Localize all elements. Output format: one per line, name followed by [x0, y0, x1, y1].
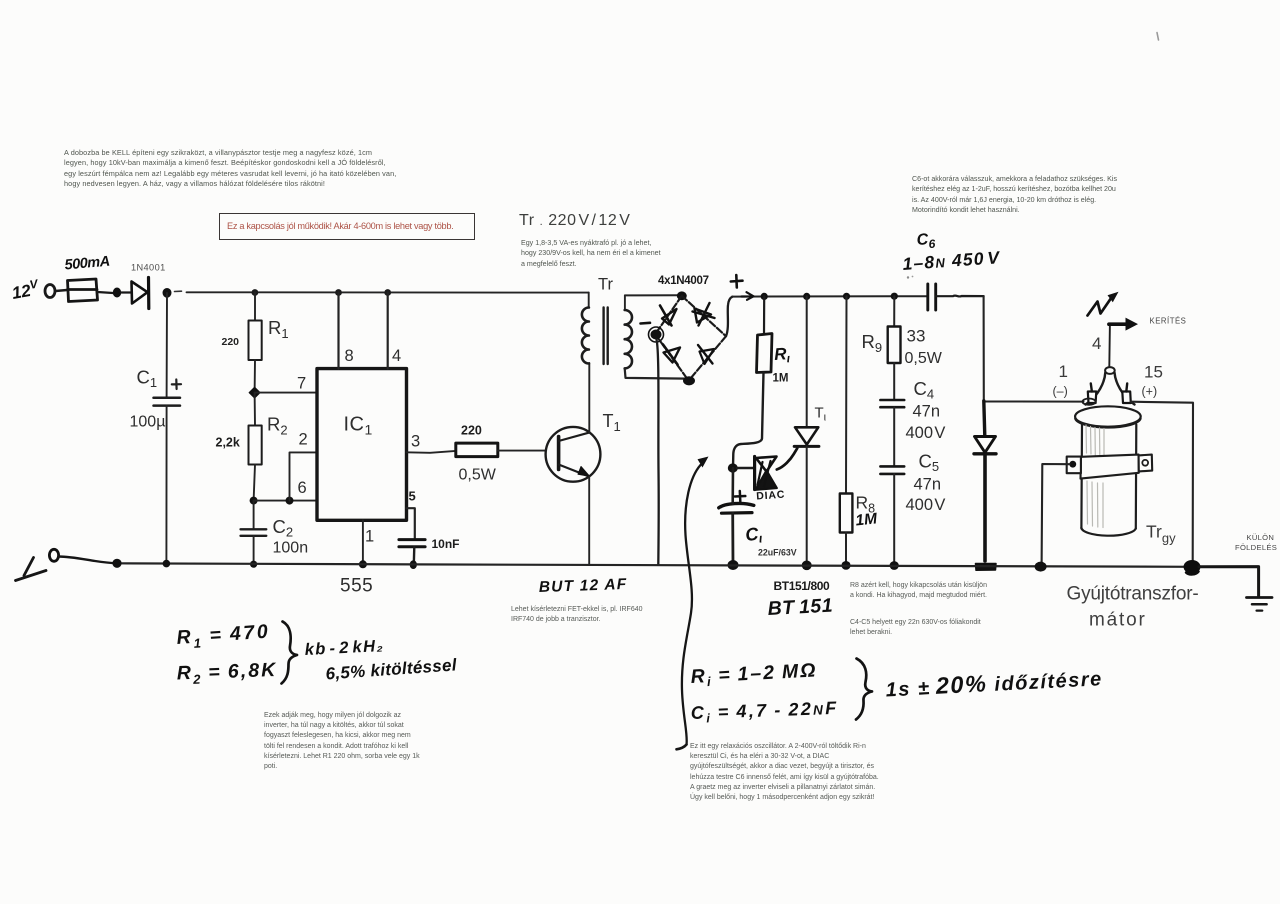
svg-text:1–8N 450 V: 1–8N 450 V: [902, 247, 1001, 274]
svg-text:(+): (+): [1142, 385, 1158, 399]
svg-text:Gyújtótranszfor-: Gyújtótranszfor-: [1067, 584, 1199, 605]
svg-text:4: 4: [392, 347, 401, 365]
node clamp right bolt: [1142, 460, 1148, 466]
thyristor Ti anode stem: [806, 296, 808, 427]
svg-text:15: 15: [1144, 363, 1163, 382]
node output of diode: [163, 288, 172, 298]
wire terminal to fuse: [56, 290, 68, 291]
node pin1 at bottom rail: [359, 560, 367, 568]
svg-text:2: 2: [299, 431, 308, 449]
svg-text:12V: 12V: [10, 276, 41, 303]
svg-text:Tι: Tι: [815, 405, 827, 424]
wire top rail right section: [732, 295, 928, 297]
node clamp wire at bottom rail: [1035, 562, 1047, 572]
wire pin 4 stem: [387, 293, 389, 369]
node arrow mark on plus rail: [742, 292, 754, 300]
resistor R9 33 0,5W body: [888, 327, 901, 364]
wire Ti cathode to bottom rail: [806, 446, 808, 565]
ignition coil tower cone: [1086, 373, 1106, 405]
resistor 220 0,5W body: [456, 443, 498, 457]
svg-text:Ri = 1–2 MΩ: Ri = 1–2 MΩ: [690, 659, 818, 690]
svg-text:Trgy: Trgy: [1146, 522, 1176, 546]
svg-text:C5: C5: [919, 451, 940, 475]
capacitor Ci 22uF/63V plates: [719, 503, 754, 507]
wire secondary bottom to bridge: [625, 368, 686, 378]
note: scan speck marks: [907, 276, 909, 278]
svg-text:C4: C4: [914, 378, 935, 402]
svg-text:R1: R1: [268, 317, 289, 341]
wire bottom rail: [117, 563, 1193, 567]
wire pin 3 lead: [407, 451, 456, 453]
wire pin 8 stem: [337, 293, 339, 369]
wire bridge plus output up to rail: [726, 297, 733, 337]
wire clamp to bottom rail: [1042, 464, 1070, 567]
svg-text:C6: C6: [916, 231, 936, 252]
note: relaxation oscillator paragraph: [690, 742, 879, 803]
wire terminal squiggle to rail start: [59, 557, 117, 564]
ignition coil terminal 1 nut: [1088, 392, 1097, 404]
wire C2 to bottom rail: [253, 536, 255, 564]
svg-text:400 V: 400 V: [906, 424, 946, 442]
node top rail at R1: [252, 289, 259, 296]
ignition coil clamp band: [1081, 455, 1139, 479]
svg-text:1N4001: 1N4001: [131, 263, 166, 273]
spark symbol lightning arrow: [1088, 298, 1112, 316]
wire R2 to node6: [254, 465, 255, 501]
transistor T1: [546, 427, 601, 482]
wire Ci to bottom rail: [731, 513, 734, 565]
transformer Tr secondary winding: [624, 295, 626, 310]
svg-text:Ci = 4,7 - 22NF: Ci = 4,7 - 22NF: [690, 698, 838, 726]
node R2/C2/pin6 junction: [250, 497, 258, 505]
diode D freewheel: [975, 437, 996, 453]
wire C1 branch from diode node down: [166, 293, 168, 397]
node top rail at pin 4: [384, 289, 391, 296]
thyristor Ti triangle: [795, 427, 818, 444]
wire C1 to bottom rail: [165, 406, 167, 564]
wire pin 2 riser and lead: [290, 452, 317, 500]
wire earth junction to ground symbol: [1199, 567, 1259, 597]
node rail at R8: [843, 293, 850, 300]
svg-text:47n: 47n: [913, 403, 941, 421]
resistor R8 1M body: [840, 494, 853, 533]
svg-text:500mA: 500mA: [64, 254, 110, 274]
ignition coil body sides: [1081, 424, 1136, 529]
diode D4 on bridge lower-right edge: [700, 349, 715, 364]
svg-text:4x1N4007: 4x1N4007: [658, 275, 709, 287]
wire hand-drawn pointer curve to oscillator note: [682, 465, 701, 745]
node C1 at bottom rail: [163, 560, 171, 568]
ignition coil bottom ellipse: [1081, 528, 1135, 536]
ignition coil clamp left ear: [1067, 457, 1081, 474]
resistor R8 stem from rail: [845, 296, 848, 493]
wire R2 stem: [254, 393, 256, 426]
svg-text:2,2k: 2,2k: [216, 436, 240, 450]
svg-text:1: 1: [365, 528, 374, 546]
node bridge left corner minus output: [651, 330, 662, 340]
svg-text:R1 = 470: R1 = 470: [176, 620, 271, 651]
svg-text:BT151/800: BT151/800: [774, 579, 830, 593]
capacitor C1 100u plates: [154, 398, 181, 406]
note: transformer hint paragraph: [521, 238, 661, 269]
note: C4-C5 replacement note: [850, 618, 981, 638]
fuse F1 500mA: [68, 279, 98, 302]
wire DIAC to thyristor gate: [777, 448, 798, 469]
capacitor C2 100n plates: [241, 529, 267, 536]
wire R9 to C4: [893, 363, 895, 400]
node C2 at bottom rail: [250, 561, 257, 568]
wire secondary top to bridge: [625, 294, 680, 296]
capacitor C6 1-8N 450V plates: [928, 284, 936, 310]
node top rail at pin 8: [335, 289, 342, 296]
wire C4 to C5: [893, 407, 895, 466]
transformer Tr core: [604, 308, 608, 365]
node ground-side terminal: [49, 549, 58, 561]
wire dash gap after diode node: [175, 290, 182, 292]
wire fuse to junction: [98, 292, 114, 293]
svg-text:Rι: Rι: [774, 344, 791, 366]
svg-text:100µ: 100µ: [130, 414, 166, 431]
svg-text:1M: 1M: [855, 510, 879, 529]
svg-text:4: 4: [1092, 334, 1101, 353]
svg-text:5: 5: [409, 489, 416, 504]
note: R8 purpose note: [850, 581, 987, 601]
node R8 at bottom rail: [841, 561, 850, 570]
node clamp left bolt: [1069, 461, 1076, 468]
resistor R9 stem from rail: [893, 296, 895, 326]
wire pin 1 stem: [362, 520, 364, 564]
ignition coil body top ellipse: [1075, 406, 1141, 426]
note: FET experiment note: [511, 605, 643, 625]
capacitor 10nF plates: [399, 540, 425, 547]
svg-text:47n: 47n: [914, 476, 942, 494]
diode D2 on bridge upper-right edge: [695, 309, 712, 323]
wire R1 to node7: [254, 360, 256, 393]
svg-text:FÖLDELÉS: FÖLDELÉS: [1235, 543, 1277, 552]
svg-text:C1: C1: [137, 367, 158, 391]
value plus sign at Ci: [735, 491, 746, 502]
note: red framed note: [219, 213, 475, 240]
wire junction to diode: [121, 291, 131, 293]
node main earth junction blob: [1184, 560, 1201, 574]
transformer Tr primary winding: [588, 293, 590, 308]
wire T1 emitter to bottom rail: [588, 476, 590, 564]
ignition coil terminal 15 nut: [1122, 392, 1131, 404]
svg-text:7: 7: [297, 375, 306, 393]
svg-text:6,5% kitöltéssel: 6,5% kitöltéssel: [325, 655, 458, 683]
svg-text:100n: 100n: [273, 540, 309, 557]
svg-text:1: 1: [1059, 362, 1068, 381]
capacitor C4 47n 400V plates: [880, 400, 904, 407]
wire Ri to diac node: [733, 373, 764, 468]
brace right of R1 R2 values: [282, 622, 298, 684]
wire KERITES riser from coil tower: [1108, 324, 1111, 367]
svg-text:33: 33: [907, 327, 926, 346]
svg-text:R2: R2: [267, 414, 288, 438]
wire R8 to bottom rail: [845, 533, 847, 566]
node rail at Ri: [761, 293, 768, 300]
svg-text:1M: 1M: [773, 373, 789, 385]
wire coil node to ignition coil terminal 1: [984, 401, 1084, 403]
wire C5 to bottom rail: [893, 474, 895, 566]
svg-text:mátor: mátor: [1089, 610, 1147, 631]
svg-text:10nF: 10nF: [432, 537, 460, 551]
ignition coil body hatching: [1086, 425, 1104, 528]
diode D1 on bridge upper-left edge: [662, 309, 677, 325]
node rail at R9: [891, 293, 898, 300]
svg-text:(–): (–): [1053, 385, 1068, 399]
node Ci at bottom rail: [728, 560, 739, 570]
diode 1N4001: [132, 282, 148, 304]
wire coil node down to diode D: [984, 401, 985, 437]
note: main warning paragraph top-left: [64, 148, 396, 189]
node junction after fuse: [113, 288, 121, 298]
svg-text:Cι: Cι: [744, 523, 763, 547]
rectifier bridge edges: [655, 296, 726, 381]
diode D3 on bridge lower-left edge: [664, 348, 681, 363]
node bridge bottom corner: [683, 376, 695, 385]
node diode D at bottom rail: [976, 564, 997, 571]
node 12V input terminal: [45, 285, 55, 298]
wire node to DIAC: [737, 467, 755, 469]
svg-text:220: 220: [461, 424, 482, 438]
svg-text:DIAC: DIAC: [756, 489, 786, 503]
svg-text:kb - 2 kH₂: kb - 2 kH₂: [304, 637, 384, 659]
value plus sign at C1: [172, 380, 181, 390]
svg-text:22uF/63V: 22uF/63V: [758, 548, 797, 558]
wire diode D to bottom rail: [983, 454, 987, 561]
brace right of Ri Ci values: [856, 659, 872, 720]
node rail at Ti anode: [803, 293, 810, 300]
wire C6 corner down to coil node: [983, 296, 985, 401]
value minus sign at bridge left corner: [641, 321, 651, 324]
svg-text:BT 151: BT 151: [767, 595, 833, 620]
node C5 at bottom rail: [890, 561, 899, 570]
node R1/R2/pin7 junction: [249, 388, 259, 398]
svg-text:220: 220: [222, 336, 240, 348]
svg-text:T1: T1: [603, 411, 621, 434]
value plus sign at bridge output: [731, 275, 743, 288]
note: transformer title Tr 220V/12V: [519, 212, 630, 230]
wire 10nF to bottom rail: [413, 547, 416, 565]
svg-text:6: 6: [298, 479, 307, 497]
svg-text:R2 = 6,8K: R2 = 6,8K: [176, 659, 277, 687]
ground symbol separate earth: [1247, 596, 1273, 599]
wire pin 7: [255, 392, 317, 394]
op-amp IC1 555 timer box: [317, 369, 407, 521]
wire KERITES arrow: [1109, 322, 1126, 326]
svg-text:R9: R9: [862, 331, 883, 355]
wire bridge minus output down to bottom rail: [657, 340, 659, 565]
svg-text:0,5W: 0,5W: [905, 350, 943, 367]
note: duty-cycle paragraph: [264, 711, 420, 772]
thyristor Ti cathode bar: [794, 445, 819, 448]
wire node to Ci: [731, 468, 734, 504]
ignition coil clamp right ear: [1139, 455, 1153, 472]
DIAC symbol: [753, 457, 756, 490]
svg-text:0,5W: 0,5W: [459, 467, 497, 484]
node 10nF at bottom rail: [410, 560, 417, 569]
wire R1 stem from rail: [254, 293, 256, 321]
wire T1 collector to transformer primary: [588, 363, 590, 433]
resistor Ri 1M stem from rail: [763, 296, 765, 334]
svg-text:8: 8: [345, 347, 354, 365]
ignition coil tower cap: [1105, 367, 1115, 374]
svg-text:C2: C2: [273, 516, 294, 540]
svg-text:BUT 12 AF: BUT 12 AF: [539, 576, 628, 596]
node diac/Ci junction: [728, 463, 738, 472]
wire pin 6: [254, 500, 317, 502]
svg-text:Tr: Tr: [598, 276, 613, 294]
rectifier bridge 4x1N4007 top corner node: [677, 291, 687, 300]
node loop at coil terminal 1 wire: [1083, 399, 1096, 405]
wire pin 5 lead: [407, 508, 415, 539]
note: C6 sizing paragraph: [912, 174, 1117, 216]
wire top rail left section: [187, 291, 589, 293]
ground symbol left: [24, 558, 34, 576]
node pin2 riser junction: [286, 497, 294, 505]
svg-text:555: 555: [340, 576, 373, 597]
resistor Ri 1M body: [757, 334, 773, 373]
svg-text:KÜLÖN: KÜLÖN: [1247, 533, 1275, 542]
resistor R1 body: [249, 321, 262, 361]
capacitor C5 47n 400V plates: [880, 466, 904, 474]
resistor R2 body: [249, 426, 262, 465]
node Ti at bottom rail: [802, 561, 812, 571]
svg-text:KERÍTÉS: KERÍTÉS: [1150, 317, 1187, 326]
node rail start junction: [112, 559, 121, 568]
svg-text:400 V: 400 V: [906, 496, 946, 514]
wire coil terminal 15 to right riser: [1131, 402, 1193, 561]
svg-text:1ѕ ± 20% időzítésre: 1ѕ ± 20% időzítésre: [885, 664, 1103, 701]
wire C2 stem: [253, 501, 255, 529]
wire C6 right plate to corner: [936, 294, 984, 297]
svg-text:3: 3: [411, 433, 420, 451]
wire 220 resistor to T1 base: [498, 450, 546, 452]
